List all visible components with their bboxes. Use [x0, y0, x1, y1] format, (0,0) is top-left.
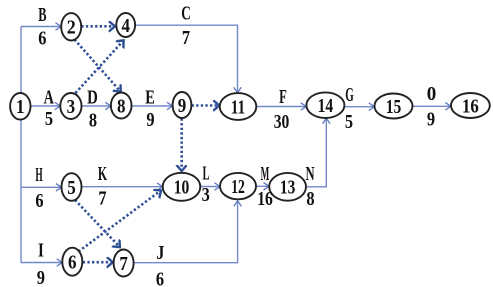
svg-text:13: 13 [280, 176, 295, 198]
svg-text:6: 6 [38, 27, 46, 49]
svg-text:1: 1 [16, 96, 25, 119]
svg-text:I: I [38, 238, 44, 261]
svg-text:30: 30 [274, 110, 290, 132]
svg-text:4: 4 [121, 15, 130, 38]
svg-text:5: 5 [67, 177, 76, 200]
svg-text:14: 14 [318, 94, 334, 116]
svg-text:A: A [44, 86, 55, 108]
svg-text:5: 5 [345, 111, 353, 133]
svg-text:16: 16 [257, 187, 273, 209]
svg-text:9: 9 [37, 267, 45, 287]
svg-text:H: H [35, 164, 42, 186]
svg-text:9: 9 [146, 109, 154, 131]
svg-text:9: 9 [427, 108, 435, 130]
svg-text:16: 16 [462, 95, 479, 117]
svg-text:6: 6 [156, 268, 164, 287]
svg-text:G: G [345, 85, 354, 106]
svg-text:C: C [181, 2, 191, 24]
svg-text:N: N [305, 162, 314, 185]
svg-text:J: J [156, 241, 164, 263]
svg-text:11: 11 [231, 95, 245, 118]
svg-text:5: 5 [45, 108, 53, 130]
svg-text:3: 3 [67, 96, 76, 119]
svg-text:8: 8 [306, 188, 314, 210]
svg-text:2: 2 [67, 17, 76, 39]
svg-text:M: M [261, 163, 270, 185]
svg-text:7: 7 [98, 187, 106, 209]
svg-text:E: E [145, 85, 155, 108]
svg-text:10: 10 [174, 176, 190, 198]
svg-text:B: B [38, 3, 46, 26]
svg-text:12: 12 [231, 175, 245, 197]
svg-text:6: 6 [35, 190, 43, 212]
svg-text:8: 8 [89, 109, 97, 131]
svg-text:6: 6 [68, 251, 77, 274]
svg-text:L: L [202, 163, 209, 184]
svg-text:15: 15 [386, 95, 402, 117]
svg-text:0: 0 [427, 84, 436, 106]
svg-text:F: F [279, 85, 287, 108]
svg-text:3: 3 [202, 184, 210, 206]
svg-text:8: 8 [117, 95, 126, 118]
svg-text:7: 7 [182, 27, 190, 49]
svg-text:D: D [87, 85, 98, 108]
svg-text:K: K [98, 162, 107, 185]
svg-text:9: 9 [178, 95, 187, 118]
svg-text:7: 7 [119, 253, 128, 276]
